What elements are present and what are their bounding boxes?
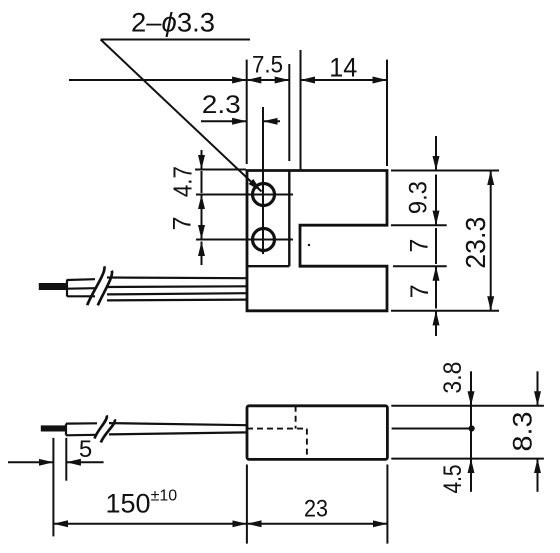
svg-text:7.5: 7.5	[252, 52, 283, 79]
cable break side view	[95, 415, 115, 442]
dim 8.3	[508, 371, 538, 492]
dim 14	[301, 50, 388, 171]
mounting hole H1	[253, 184, 275, 206]
dim 9.3 7 7 right	[391, 136, 499, 336]
svg-text:4.7: 4.7	[168, 166, 198, 197]
dim 7.5	[69, 52, 289, 165]
svg-text:23.3: 23.3	[460, 217, 491, 269]
dim 5	[8, 436, 104, 536]
svg-text:9.3: 9.3	[405, 181, 433, 214]
dim 2.3	[201, 91, 280, 121]
svg-text:7: 7	[406, 284, 434, 298]
slot speck	[308, 244, 310, 246]
dim 3.8	[439, 362, 471, 459]
svg-text:3.8: 3.8	[439, 362, 467, 394]
svg-text:5: 5	[79, 436, 92, 463]
svg-text:4.5: 4.5	[439, 465, 467, 494]
centerline dot	[469, 425, 475, 431]
hidden slot lines dashed	[247, 406, 307, 460]
svg-text:7: 7	[169, 216, 197, 230]
ext lines right side view	[391, 406, 544, 459]
svg-text:23: 23	[304, 496, 328, 523]
wire tip bar top view	[39, 283, 68, 290]
lead wires top view	[67, 278, 247, 301]
holes vertical centerline	[262, 107, 264, 254]
dim 150 pm 10	[53, 488, 247, 524]
lead wire side view	[66, 423, 247, 435]
svg-text:8.3: 8.3	[508, 412, 538, 452]
leader 2-phi3.3	[101, 8, 262, 192]
dim 23.3	[460, 171, 491, 311]
mounting hole H2	[253, 229, 275, 251]
inner wall line	[288, 171, 290, 267]
dim 4.5	[439, 459, 471, 494]
hole H1 horizontal centerline	[196, 194, 293, 196]
svg-text:14: 14	[329, 53, 357, 83]
svg-text:2–ϕ3.3: 2–ϕ3.3	[131, 8, 215, 38]
hole H2 horizontal centerline	[196, 239, 293, 241]
left column bottom edge	[247, 265, 289, 267]
svg-text:2.3: 2.3	[202, 91, 241, 119]
wire tip bar side view	[41, 425, 66, 431]
svg-text:7: 7	[406, 239, 434, 253]
body outline side view	[247, 406, 387, 460]
dim 23	[247, 465, 388, 544]
dim 4.7 and 7 left	[168, 150, 247, 265]
body outline top view	[247, 171, 387, 311]
cable break symbol top view	[87, 266, 112, 305]
